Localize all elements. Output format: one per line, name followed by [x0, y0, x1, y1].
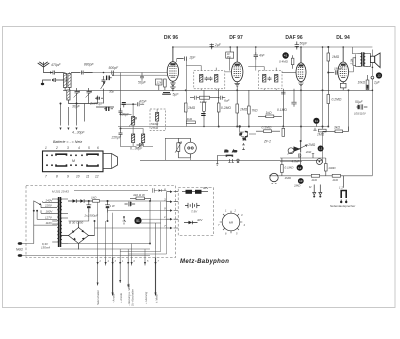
svg-text:1: 1: [164, 215, 166, 219]
tube DK96: [167, 47, 178, 85]
svg-text:0.5MΩ: 0.5MΩ: [262, 126, 272, 130]
contact pair left of 51: [123, 216, 126, 224]
cap 47pF: [133, 100, 148, 109]
tube DL94: [338, 47, 349, 90]
svg-text:10: 10: [76, 175, 80, 179]
svg-text:11: 11: [86, 175, 90, 179]
contact pins M St: [309, 185, 322, 198]
svg-text:8: 8: [164, 188, 166, 192]
svg-text:5: 5: [236, 232, 238, 236]
wire DL94 anode to transformer: [343, 47, 357, 72]
wire AF bus: [140, 159, 323, 161]
svg-text:8µF: 8µF: [224, 99, 231, 103]
trimmer 6..30pF: [130, 143, 144, 151]
svg-text:St.-Abschalter: St.-Abschalter: [131, 289, 135, 306]
svg-text:47pF: 47pF: [139, 100, 148, 104]
dark circle 11 at 316,120.8: [313, 118, 319, 124]
top bus cap 50pF at 297: [295, 42, 308, 50]
tube DF97: [232, 47, 243, 86]
svg-text:10kΩ: 10kΩ: [358, 81, 366, 85]
resistor 0.2M x328 lower: [327, 73, 342, 127]
svg-text:3: 3: [67, 146, 69, 150]
motor circle: [185, 138, 197, 158]
svg-text:Nebenlautsprecher: Nebenlautsprecher: [330, 204, 356, 208]
electrolytic 5uF below DK96: [162, 93, 179, 97]
resistor 1k horizontal 266-274: [258, 111, 282, 118]
svg-text:DF 97: DF 97: [229, 35, 243, 41]
svg-text:220V: 220V: [44, 204, 53, 208]
svg-text:- Heizung u. Minus: - Heizung u. Minus: [127, 283, 131, 306]
wire second line to tube: [113, 74, 167, 76]
resistor column DF97 anode: [236, 86, 248, 127]
svg-text:150mA: 150mA: [41, 245, 50, 249]
battery symbols in battery box: [182, 186, 209, 194]
svg-text:1MΩ: 1MΩ: [317, 133, 325, 137]
svg-text:1kΩ: 1kΩ: [187, 117, 193, 121]
svg-text:40V: 40V: [197, 218, 203, 222]
svg-text:30p: 30p: [109, 90, 114, 94]
elko 2x1500uF: [86, 200, 91, 212]
svg-text:4: 4: [108, 260, 110, 263]
antenna coupling cap: [50, 71, 64, 77]
trimmer caps row y88-100: [68, 88, 97, 104]
svg-text:7: 7: [45, 175, 47, 179]
svg-text:90V: 90V: [203, 186, 209, 190]
svg-text:1 2: 1 2: [339, 186, 343, 190]
svg-text:0.2MΩ: 0.2MΩ: [332, 98, 342, 102]
svg-text:6...30pF: 6...30pF: [130, 147, 143, 151]
svg-text:100/110V: 100/110V: [354, 112, 367, 116]
svg-text:12k: 12k: [157, 81, 162, 85]
svg-text:432 Ω W: 432 Ω W: [133, 193, 146, 197]
cap 180pF right: [328, 67, 343, 75]
wire grid line to DK96: [63, 72, 167, 74]
cathode box below DL94: [342, 82, 344, 84]
bracket cap dark 1: [107, 76, 112, 81]
dark circle 51: [134, 217, 141, 224]
svg-text:1: 1: [225, 209, 227, 213]
wire right vertical: [371, 50, 373, 176]
svg-text:DAF 96: DAF 96: [285, 35, 302, 41]
earphone line resistors 2k 2k: [311, 174, 341, 182]
svg-text:DK 96: DK 96: [164, 35, 178, 41]
svg-text:M8: M8: [229, 220, 233, 224]
IF transformer 1 (dashed box): [194, 71, 225, 89]
battery connector block: [43, 140, 118, 179]
svg-text:220pF: 220pF: [111, 136, 122, 140]
elko bars under: [201, 114, 205, 116]
svg-text:11: 11: [315, 119, 318, 123]
dark circle n3: [293, 178, 304, 187]
svg-text:7: 7: [218, 223, 220, 227]
svg-text:L1: L1: [319, 147, 323, 151]
elko 50uF 100/110V box: [354, 100, 367, 116]
earphone jack open circle: [270, 173, 278, 183]
rheostat: [175, 138, 182, 157]
ground below DK96: [170, 85, 175, 90]
oscillator coil 2: [132, 134, 145, 143]
svg-text:50pF: 50pF: [300, 42, 309, 46]
svg-text:2µF: 2µF: [214, 43, 222, 47]
speaker plug: [339, 176, 347, 203]
svg-text:M 201 25-83: M 201 25-83: [52, 190, 69, 194]
dark bracket 3: [104, 107, 113, 111]
wire filament bus: [63, 89, 372, 91]
output transformer: [357, 52, 368, 66]
slots: [56, 154, 98, 166]
wire ant to coil: [62, 73, 68, 81]
svg-text:+ Heizung: + Heizung: [144, 291, 148, 304]
resistor 100ohm vertical: [325, 158, 337, 176]
cap 30pF: [119, 108, 131, 117]
elko at 129: [125, 202, 136, 207]
dark circle L1: [318, 146, 324, 152]
svg-text:DL 94: DL 94: [336, 35, 350, 41]
svg-text:M: M: [309, 185, 312, 189]
resistor 2.2k: [350, 58, 356, 66]
tube DAF96: [296, 47, 306, 86]
svg-text:2kΩ: 2kΩ: [332, 178, 339, 182]
resistor 1M horizontal under dark circle: [313, 124, 326, 137]
svg-text:2kΩ: 2kΩ: [311, 178, 318, 182]
svg-text:4nF: 4nF: [259, 54, 266, 58]
cap 4nF near DF97: [254, 47, 266, 71]
svg-text:7: 7: [158, 260, 160, 263]
svg-text:Netzschalter: Netzschalter: [96, 290, 100, 305]
dark cap 2: [95, 97, 103, 100]
DAF96 under column: [277, 86, 301, 141]
svg-text:0.1MΩ: 0.1MΩ: [277, 108, 287, 112]
ps wires right section: [60, 200, 167, 249]
svg-text:9: 9: [164, 206, 166, 210]
transformer (mains): [52, 197, 68, 247]
svg-text:2pF: 2pF: [189, 56, 197, 60]
svg-text:M: M: [72, 159, 75, 163]
rectifier bridge: [61, 221, 95, 250]
connector arrows column: [164, 188, 178, 230]
svg-text:2MΩ: 2MΩ: [307, 143, 315, 147]
svg-text:3: 3: [115, 260, 117, 263]
resistor 0.5M horizontal 263-272: [256, 126, 280, 133]
svg-text:1MΩ: 1MΩ: [240, 108, 248, 112]
svg-text:6: 6: [134, 260, 136, 263]
top bus cap at 212: [210, 43, 222, 49]
motor wiring: [165, 138, 190, 160]
osc feedback row: [190, 96, 231, 104]
svg-text:3kΩ: 3kΩ: [334, 126, 340, 130]
node ground input: [41, 78, 64, 85]
svg-text:4...30pF: 4...30pF: [72, 131, 85, 135]
elko small: [122, 103, 126, 108]
speaker: [368, 53, 380, 68]
svg-text:0.4MΩ: 0.4MΩ: [279, 60, 289, 64]
grid box 12k DK96: [156, 79, 167, 90]
svg-text:2MΩ: 2MΩ: [293, 184, 301, 188]
svg-text:Metz-Babyphon: Metz-Babyphon: [180, 259, 229, 265]
wire earphone line: [269, 175, 372, 177]
Ein/Aus switch: [216, 149, 239, 165]
svg-text:7kΩ: 7kΩ: [252, 109, 258, 113]
resistor under IF1: [203, 90, 206, 126]
svg-text:2: 2: [55, 146, 58, 150]
volume pot: [288, 143, 316, 154]
wire top B+ bus: [173, 46, 373, 48]
svg-text:1: 1: [45, 146, 47, 150]
series cap 113 on grid wire: [112, 71, 114, 75]
resistor 3k horizontal right: [323, 126, 349, 133]
dark circle 2 at speaker: [373, 72, 382, 84]
svg-text:470pF: 470pF: [51, 63, 62, 67]
jack circle with dot: [317, 159, 323, 165]
svg-text:12: 12: [298, 166, 302, 170]
svg-text:Netz: Netz: [16, 248, 23, 252]
trimmer arrow: [101, 82, 105, 89]
misc risers: [172, 66, 349, 132]
svg-text:ZF-2: ZF-2: [263, 140, 271, 144]
battery dashed box: [178, 188, 213, 236]
svg-text:1kΩ: 1kΩ: [91, 195, 97, 199]
antenna: [38, 62, 51, 73]
IF transformer 2 (dashed box): [259, 71, 283, 89]
tube socket circle: [218, 209, 246, 236]
svg-text:2kΩ: 2kΩ: [305, 150, 312, 154]
power supply dashed box: [26, 186, 176, 258]
svg-text:M: M: [240, 132, 243, 136]
oscillator dashed box: [150, 109, 166, 131]
svg-text:1MΩ: 1MΩ: [188, 106, 196, 110]
svg-text:4: 4: [78, 146, 80, 150]
internal verticals to bottom: [95, 202, 167, 258]
svg-text:12: 12: [377, 74, 381, 78]
svg-text:5: 5: [147, 260, 149, 263]
svg-text:TA: TA: [243, 137, 247, 141]
svg-text:5µF: 5µF: [173, 93, 180, 97]
svg-text:± Motor: ± Motor: [154, 294, 158, 303]
resistor 1k ps: [91, 195, 130, 202]
svg-text:1: 1: [122, 260, 124, 263]
resistor near 41: [291, 55, 294, 68]
wire mid bus: [118, 126, 328, 128]
svg-text:127V: 127V: [45, 215, 53, 219]
detector triangle: [294, 146, 301, 151]
svg-text:6: 6: [97, 146, 99, 150]
antenna coil assembly: [64, 73, 72, 104]
svg-text:2x470pF: 2x470pF: [89, 102, 104, 106]
svg-text:2.2k: 2.2k: [350, 58, 354, 65]
svg-text:8: 8: [56, 175, 58, 179]
svg-text:7,5V: 7,5V: [191, 210, 198, 214]
svg-text:100Ω: 100Ω: [328, 166, 336, 170]
svg-text:2x1500µF: 2x1500µF: [84, 214, 99, 218]
svg-text:0.2MΩ: 0.2MΩ: [221, 106, 231, 110]
elko 2: [105, 200, 115, 212]
svg-text:6: 6: [225, 232, 227, 236]
elko right: [358, 75, 369, 90]
DK96 anode resistor 0.2M: [184, 103, 195, 112]
top bus trimmer box 10/45: [226, 47, 234, 71]
svg-text:2µF: 2µF: [373, 81, 381, 85]
cap 220pF: [111, 130, 123, 140]
svg-text:50µF: 50µF: [355, 100, 364, 104]
svg-text:180pF: 180pF: [334, 67, 343, 71]
left mixer cluster caps: [96, 76, 114, 107]
switch row wire: [74, 188, 167, 192]
wire bus x322: [322, 47, 324, 163]
plug shape right: [103, 154, 118, 169]
tube labels: [164, 35, 350, 41]
svg-text:1kΩ: 1kΩ: [266, 111, 272, 115]
dark circle n2: [297, 165, 303, 171]
svg-text:Batterie = - = Netz: Batterie = - = Netz: [53, 140, 82, 144]
svg-text:880pF: 880pF: [84, 63, 95, 67]
svg-text:27kΩ: 27kΩ: [150, 126, 159, 130]
terminal pin numbers above, rotated terminal labels below: [96, 283, 158, 306]
svg-text:1MΩ: 1MΩ: [332, 55, 340, 59]
svg-text:5: 5: [88, 146, 90, 150]
svg-text:Aus: Aus: [232, 149, 238, 153]
AF line segments: [280, 154, 326, 162]
svg-text:Ein: Ein: [225, 149, 229, 153]
resistor 7k x248: [248, 90, 258, 126]
resistor column x219: [217, 89, 231, 127]
svg-text:7: 7: [164, 224, 166, 228]
coil block stubs: [59, 103, 84, 130]
terminal arrows: [97, 262, 157, 265]
svg-text:9: 9: [67, 175, 69, 179]
svg-text:+ Anode: + Anode: [119, 293, 123, 303]
cap 2pF at DK96 anode: [177, 56, 197, 61]
svg-text:500pF: 500pF: [109, 66, 120, 70]
series cap 82: [71, 71, 93, 75]
svg-text:12: 12: [95, 175, 99, 179]
svg-text:45p: 45p: [227, 55, 232, 59]
voltage selector: [33, 198, 57, 243]
svg-text:110V: 110V: [46, 221, 54, 225]
mains input plugs: [16, 242, 150, 257]
diodes: [68, 199, 95, 203]
svg-text:0.1MΩ: 0.1MΩ: [285, 166, 295, 170]
oscillator coil 1: [129, 117, 137, 127]
svg-text:1 W: 1 W: [110, 204, 115, 208]
resistor 0.2M right top: [327, 46, 340, 72]
svg-text:51: 51: [136, 219, 140, 223]
svg-text:50pF: 50pF: [138, 81, 147, 85]
svg-text:240V: 240V: [45, 198, 54, 202]
svg-text:2: 2: [99, 260, 102, 263]
resistor 432: [130, 193, 151, 201]
resistor 1k under DK96: [186, 117, 195, 124]
resistor 0.1M vertical zweit: [281, 158, 295, 180]
svg-text:2: 2: [234, 209, 237, 213]
dark circle 41 above DAF96: [279, 52, 289, 63]
svg-text:41: 41: [284, 54, 288, 58]
svg-text:3: 3: [241, 213, 243, 217]
svg-text:- Anode: - Anode: [111, 293, 115, 303]
svg-text:160V: 160V: [46, 209, 54, 213]
osc wires: [120, 73, 153, 147]
cap bar at 300: [299, 140, 301, 164]
M/TA switch at mid bus: [239, 126, 256, 150]
svg-text:1MΩ: 1MΩ: [285, 176, 292, 180]
bottom terminal drops: [98, 258, 156, 296]
svg-text:4: 4: [244, 223, 246, 227]
